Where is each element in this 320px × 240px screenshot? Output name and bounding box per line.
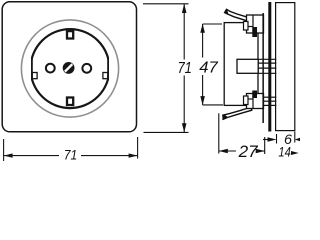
dimension 27: left extension line xyxy=(218,113,220,153)
top claw arm xyxy=(225,9,251,21)
top earth clip xyxy=(67,31,73,38)
top claw housing xyxy=(244,15,264,37)
dimension 27 line with arrows xyxy=(219,150,236,152)
dimension 71 bottom: dimension line with arrows xyxy=(4,155,59,157)
bottom earth clip xyxy=(67,98,73,106)
bottom claw housing xyxy=(244,91,264,109)
left recess flat xyxy=(28,57,32,81)
svg-text:71: 71 xyxy=(177,60,192,77)
side view 47 dimension: bottom extension line xyxy=(203,104,223,106)
svg-text:71: 71 xyxy=(64,146,78,162)
svg-text:14: 14 xyxy=(278,144,291,159)
dimension 6: right extension line xyxy=(294,132,296,143)
dimension 6: extension tick xyxy=(276,134,278,144)
socket recess circle xyxy=(31,29,110,108)
right recess flat xyxy=(108,57,112,81)
cover plate side profile xyxy=(276,3,295,131)
top claw tip xyxy=(224,9,229,15)
dimension 14: right arrow (pointing right) xyxy=(291,151,299,155)
side view 71 dimension: bottom extension line xyxy=(144,131,189,133)
bottom housing to plate connectors xyxy=(264,96,277,98)
dimension 27: right extension line xyxy=(264,137,266,154)
center screw xyxy=(63,62,75,74)
dimension 6: left arrow (pointing right) xyxy=(268,137,277,141)
bottom claw tip xyxy=(222,114,228,120)
dimension 6: right arrow (pointing left) xyxy=(295,138,300,142)
side view 47 dimension: top extension line xyxy=(203,23,222,25)
socket insert body (side view) xyxy=(224,23,258,106)
side view 71 dimension: top extension line xyxy=(143,3,189,5)
side view 71 dimension line xyxy=(183,4,185,59)
claw carrier rail xyxy=(262,13,264,123)
central support boss xyxy=(237,59,258,73)
side view 47 dimension line xyxy=(202,24,204,58)
right guide notch xyxy=(103,73,108,79)
outer trim circle xyxy=(21,20,118,117)
left pin hole xyxy=(46,64,55,73)
bottom claw arm xyxy=(223,107,252,120)
boss to plate connectors xyxy=(258,58,276,60)
dimension 71 bottom: extension lines xyxy=(3,139,5,161)
right pin hole xyxy=(82,64,91,73)
support frame thick bar xyxy=(268,2,271,132)
svg-text:27: 27 xyxy=(238,143,259,161)
svg-text:47: 47 xyxy=(199,60,219,77)
cover plate front view xyxy=(2,2,136,132)
left guide notch xyxy=(32,73,37,79)
